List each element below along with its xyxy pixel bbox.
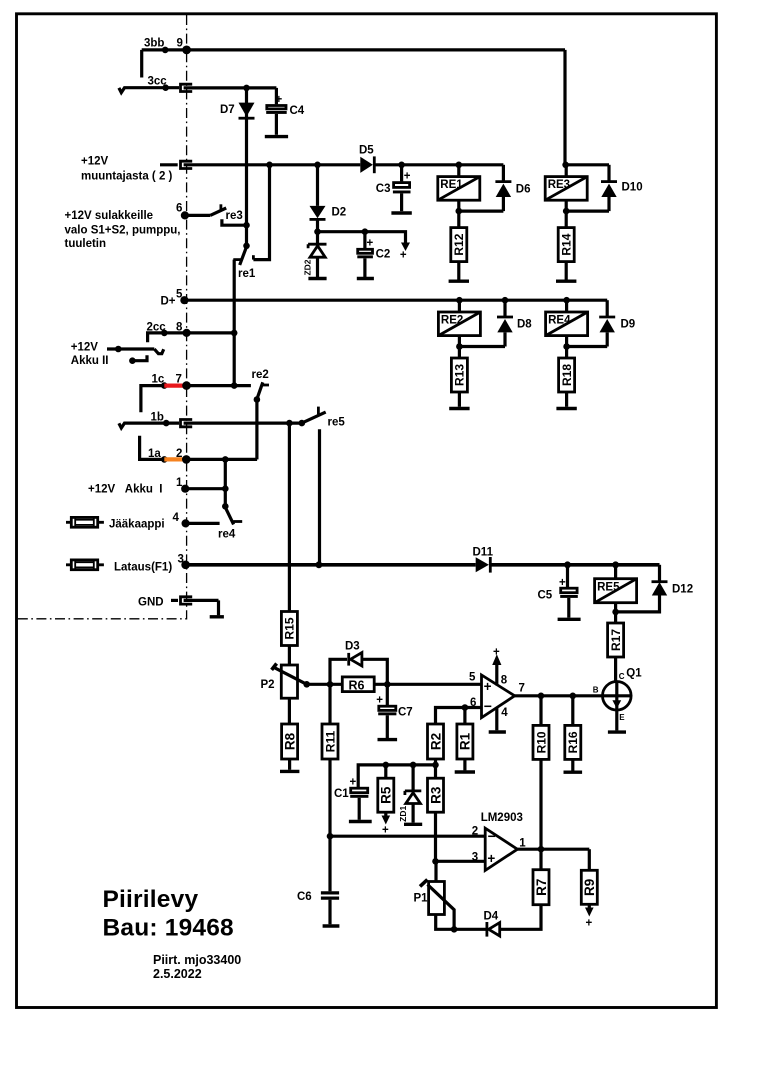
- svg-text:R14: R14: [560, 233, 574, 255]
- svg-text:valo S1+S2, pumppu,: valo S1+S2, pumppu,: [65, 225, 181, 237]
- comparator U2 body: [485, 828, 517, 870]
- op-amp U1 body: [482, 675, 515, 718]
- wire comparator output: [517, 848, 589, 851]
- relay contact re1 pivot dot: [243, 243, 250, 250]
- junction dot R15 branch: [286, 420, 293, 427]
- wire 1c: [141, 386, 164, 413]
- diode D10: [601, 180, 617, 183]
- svg-text:R12: R12: [452, 233, 466, 255]
- svg-text:7: 7: [519, 683, 525, 695]
- resistor R6: [342, 677, 374, 692]
- wire output to R9: [588, 849, 591, 870]
- svg-text:D5: D5: [359, 145, 374, 157]
- wire 1a to re2 corner: [186, 458, 257, 461]
- wire rail 9 drop to RE3: [563, 50, 566, 166]
- svg-text:R15: R15: [283, 617, 297, 639]
- terminal bar R13: [449, 407, 469, 410]
- wire re1 right contact to +12V rail: [253, 165, 269, 260]
- svg-text:+12V: +12V: [71, 341, 99, 353]
- svg-text:C2: C2: [376, 249, 391, 261]
- svg-text:3bb: 3bb: [144, 38, 164, 50]
- terminal bar R12: [449, 280, 469, 283]
- terminal bar R14: [556, 280, 576, 283]
- node 9 dot: [182, 46, 191, 55]
- junction dot ZD2 node: [314, 228, 321, 235]
- svg-text:R5: R5: [379, 786, 394, 804]
- resistor R16: [565, 725, 581, 759]
- junction dot re3/D7: [243, 222, 250, 229]
- svg-text:R17: R17: [609, 629, 623, 651]
- svg-text:E: E: [619, 713, 625, 722]
- svg-text:R6: R6: [349, 678, 365, 692]
- wire R6 to opamp pin5: [374, 683, 481, 686]
- svg-text:Piirt. mjo33400: Piirt. mjo33400: [153, 953, 241, 967]
- svg-text:D10: D10: [622, 182, 643, 194]
- svg-text:R7: R7: [534, 879, 549, 896]
- wire RE2 to R13: [458, 347, 461, 359]
- svg-text:RE3: RE3: [548, 179, 570, 191]
- svg-text:tuuletin: tuuletin: [65, 238, 107, 250]
- diode D7: [239, 103, 255, 117]
- svg-text:+: +: [367, 238, 374, 250]
- potentiometer P1: [429, 882, 445, 915]
- capacitor C6: [328, 836, 331, 891]
- wire RE3 to R14: [565, 211, 568, 228]
- diode D12: [652, 580, 668, 583]
- svg-text:8: 8: [501, 675, 508, 687]
- junction dot RE5: [612, 561, 619, 568]
- junction dot 2cc re1 wire: [231, 330, 238, 337]
- diode D5: [360, 157, 373, 173]
- svg-text:re2: re2: [252, 369, 269, 381]
- svg-text:D+: D+: [161, 296, 176, 308]
- fuse Lataus F1: [66, 563, 104, 566]
- junction dot RE3 bottom: [563, 208, 570, 215]
- supply arrow R9: [588, 904, 591, 908]
- svg-text:+: +: [484, 679, 492, 694]
- junction dot 3cc: [162, 84, 169, 91]
- junction dot 2cc left: [161, 330, 168, 337]
- connector +12V muuntajasta: [160, 163, 178, 166]
- re1 left contact tick: [233, 258, 241, 261]
- wire opamp pin6: [436, 708, 482, 725]
- relay contact re1 arm: [240, 247, 247, 265]
- fuse Jaakaappi: [66, 521, 104, 524]
- junction dot 1a: [161, 456, 168, 463]
- svg-text:RE4: RE4: [548, 315, 571, 327]
- orange wire segment 1a: [164, 457, 186, 461]
- wire Q1 emitter: [615, 710, 618, 730]
- junction dot ZD1 top: [410, 762, 417, 769]
- connector 1b: [181, 420, 193, 427]
- wire C1 net: [358, 765, 435, 787]
- wire D9 bottom: [606, 332, 609, 346]
- svg-text:P2: P2: [261, 679, 275, 691]
- resistor R17: [608, 623, 624, 657]
- ground bar GND: [210, 615, 224, 618]
- svg-text:R11: R11: [323, 731, 337, 753]
- wire R6 node to R11: [328, 684, 331, 724]
- resistor R13: [451, 358, 467, 392]
- svg-text:Lataus(F1): Lataus(F1): [114, 562, 172, 574]
- junction dot RE4 bottom: [563, 343, 570, 350]
- wire P2 to R8: [288, 698, 291, 724]
- diode D2: [310, 206, 326, 218]
- resistor R5: [378, 778, 394, 812]
- wire R1 top: [463, 708, 466, 725]
- wire RE2 bottom to D8: [459, 345, 505, 348]
- wire 1a re4 branch down: [224, 459, 227, 488]
- wire D6 top: [502, 165, 505, 182]
- wire R3 to pin3 net: [434, 812, 437, 861]
- terminal bar R8: [280, 770, 299, 773]
- wire rail 9: [142, 48, 565, 51]
- terminal bar R16: [564, 771, 583, 774]
- diode D11: [476, 557, 489, 572]
- wire 1b to R15: [288, 423, 291, 611]
- 3cc hook terminal: [119, 88, 132, 93]
- wire 1b: [132, 422, 180, 425]
- junction dot node 1 re4: [222, 485, 229, 492]
- svg-text:LM2903: LM2903: [481, 812, 523, 824]
- zener ZD1: [412, 765, 415, 791]
- relay RE5 coil: [614, 565, 617, 579]
- switch re5 pivot dot: [299, 420, 306, 427]
- svg-text:5: 5: [469, 671, 476, 683]
- wire RE4 bottom to D9: [567, 345, 608, 348]
- wire D10 top: [607, 165, 610, 182]
- wire D3 loop left: [330, 659, 347, 684]
- wire 1c to re2: [187, 384, 251, 387]
- op-amp U1 power arrow: [495, 662, 498, 686]
- svg-text:R1: R1: [458, 732, 473, 750]
- wire ZD2 node to arrow: [318, 232, 406, 244]
- supply arrow near C2: [401, 243, 410, 252]
- junction dot RE3 rail: [562, 162, 569, 169]
- 1b hook terminal: [119, 423, 132, 428]
- svg-text:R2: R2: [428, 733, 443, 750]
- resistor R7: [533, 870, 549, 905]
- svg-text:−: −: [488, 828, 496, 844]
- switch re2: [256, 382, 263, 401]
- junction dot RE1 rail: [456, 162, 463, 169]
- wire R16 to bar: [571, 759, 574, 770]
- svg-text:4: 4: [173, 512, 180, 524]
- junction dot RE4 rail: [563, 297, 570, 304]
- supply arrow R5: [384, 812, 387, 816]
- node 7 dot: [182, 381, 191, 390]
- terminal bar Q1 emitter: [608, 730, 626, 733]
- capacitor C4: [275, 88, 278, 104]
- wire R1 to bar: [463, 759, 466, 770]
- svg-text:re3: re3: [226, 210, 243, 222]
- svg-text:ZD2: ZD2: [303, 259, 313, 275]
- wire R5 top lead: [384, 765, 387, 778]
- junction dot RE1 bottom: [456, 208, 463, 215]
- junction dot on rail 9: [162, 47, 169, 54]
- junction dot R7 top: [538, 846, 545, 853]
- svg-text:+: +: [376, 695, 383, 707]
- wire D4 to R7 bottom: [500, 905, 541, 930]
- svg-text:+12V sulakkeille: +12V sulakkeille: [65, 210, 154, 222]
- junction dot P1 wiper: [451, 926, 458, 933]
- wire R15 to P2: [288, 646, 291, 666]
- node 3 dot: [181, 561, 190, 570]
- wire D5 to RE1 rail: [374, 163, 503, 166]
- svg-text:RE2: RE2: [441, 315, 463, 327]
- junction dot C5: [564, 561, 571, 568]
- wire R14 to bar: [565, 262, 568, 280]
- wire P2 tap to R6: [307, 683, 343, 686]
- svg-text:+: +: [400, 250, 407, 262]
- resistor R18: [559, 358, 575, 392]
- capacitor C1: [351, 788, 368, 793]
- wire P1 bottom: [436, 915, 486, 929]
- wire pin3 net: [436, 860, 486, 863]
- wire 3cc: [132, 86, 180, 89]
- node 4 dot: [182, 519, 190, 527]
- wire D+ rail: [184, 299, 607, 302]
- svg-text:R10: R10: [534, 731, 548, 753]
- wire 3cc to C4: [247, 86, 277, 89]
- junction dot RE2 bottom: [456, 343, 463, 350]
- re1 right contact tick: [252, 255, 255, 259]
- PCB boundary dash-dot line: [18, 15, 187, 619]
- svg-text:R13: R13: [453, 364, 467, 386]
- resistor R12: [451, 228, 467, 262]
- capacitor C7: [386, 684, 389, 705]
- op-amp U1 pin4 ground: [495, 707, 498, 730]
- wire GND to ground: [217, 600, 220, 615]
- wire R7 top lead: [539, 849, 542, 870]
- svg-text:B: B: [593, 686, 599, 695]
- relay RE3 coil: [565, 165, 568, 177]
- wire D3 loop right: [362, 659, 387, 684]
- resistor R15: [281, 612, 297, 646]
- wire RE5 to R17: [614, 612, 617, 623]
- connector 3cc: [181, 84, 193, 91]
- svg-text:2: 2: [472, 826, 478, 838]
- svg-text:D8: D8: [517, 319, 532, 331]
- junction dot 1c re1 wire: [231, 382, 238, 389]
- junction dot R5 top: [383, 762, 390, 769]
- junction dot D7 top: [243, 85, 250, 92]
- svg-text:C5: C5: [538, 590, 553, 602]
- wire D8 top: [503, 300, 506, 317]
- svg-text:Bau: 19468: Bau: 19468: [103, 915, 234, 942]
- svg-text:muuntajasta ( 2 ): muuntajasta ( 2 ): [81, 170, 173, 182]
- resistor R14: [558, 228, 574, 262]
- junction dot R16: [570, 693, 577, 700]
- resistor R10: [533, 725, 549, 759]
- svg-text:D7: D7: [220, 104, 235, 116]
- diode D3: [347, 653, 350, 666]
- svg-text:D9: D9: [621, 319, 636, 331]
- wire Jaakaappi rail: [186, 522, 220, 525]
- junction dot D8 rail: [502, 297, 509, 304]
- wire D10 bottom: [607, 197, 610, 211]
- wire R12 to bar: [457, 262, 460, 280]
- transistor Q1: [603, 682, 632, 711]
- wire 1a: [140, 436, 165, 460]
- node 2 dot: [182, 455, 191, 464]
- junction dot RE2 rail: [456, 297, 463, 304]
- svg-text:R16: R16: [566, 731, 580, 753]
- svg-text:+: +: [404, 171, 411, 183]
- node 5 dot: [180, 296, 188, 304]
- svg-text:R9: R9: [582, 879, 597, 896]
- resistor R2: [428, 724, 444, 759]
- wire D7 vertical: [245, 88, 248, 246]
- wire opamp pin7 to Q1 base: [515, 694, 603, 697]
- wire RE3 rail to D10: [566, 163, 609, 166]
- svg-text:re5: re5: [328, 417, 346, 429]
- wire R11 to pin2 net: [328, 759, 331, 836]
- junction dot RE5 bottom: [612, 609, 619, 616]
- svg-text:Piirilevy: Piirilevy: [103, 886, 199, 913]
- junction dot 1b: [163, 420, 170, 427]
- wire D12 branch: [658, 565, 661, 582]
- svg-text:6: 6: [176, 203, 182, 215]
- connector GND: [171, 599, 178, 602]
- switch re3: [185, 214, 210, 217]
- svg-text:re1: re1: [238, 268, 256, 280]
- switch re4: [224, 489, 227, 507]
- svg-text:R3: R3: [428, 786, 443, 804]
- junction dot re5 contact on Lataus rail: [316, 561, 323, 568]
- svg-text:P1: P1: [414, 893, 429, 905]
- svg-text:9: 9: [177, 38, 183, 50]
- terminal bar R1: [455, 770, 475, 773]
- svg-text:ZD1: ZD1: [398, 806, 408, 822]
- wire node 1 rail: [185, 487, 227, 490]
- wire D11 to D12 corner: [490, 563, 659, 567]
- junction dot pin3/R3: [432, 858, 439, 865]
- wire D6 bottom: [502, 197, 505, 211]
- svg-text:+: +: [493, 647, 500, 659]
- wire 3bb stub: [140, 50, 143, 78]
- svg-text:R8: R8: [282, 732, 297, 750]
- svg-text:C4: C4: [290, 105, 305, 117]
- svg-text:+: +: [350, 777, 357, 789]
- svg-text:+: +: [487, 851, 495, 866]
- junction dot re1 branch: [266, 162, 273, 169]
- capacitor C5: [566, 565, 569, 587]
- svg-text:4: 4: [501, 707, 508, 719]
- resistor R9: [581, 870, 597, 904]
- wire re5 fixed contact down: [318, 429, 321, 565]
- node 8 dot: [183, 329, 191, 337]
- svg-text:C6: C6: [297, 891, 312, 903]
- node 1 dot: [181, 485, 189, 493]
- svg-text:Jääkaappi: Jääkaappi: [109, 518, 165, 530]
- resistor R11: [322, 724, 338, 759]
- junction dot D2 branch: [314, 162, 321, 169]
- junction dot R3 top: [432, 762, 439, 769]
- svg-text:D4: D4: [484, 911, 499, 923]
- svg-text:Akku II: Akku II: [71, 355, 109, 367]
- wire pin2 net: [330, 835, 485, 838]
- resistor R1: [457, 724, 473, 759]
- wire D9 top: [606, 300, 609, 317]
- resistor R8: [282, 724, 298, 759]
- svg-text:+: +: [586, 918, 593, 930]
- svg-text:RE5: RE5: [597, 582, 620, 594]
- svg-text:C7: C7: [398, 707, 413, 719]
- junction dot 1a re4 branch: [222, 456, 229, 463]
- wire D8 bottom: [503, 332, 506, 346]
- wire R10 to comparator output: [539, 759, 542, 847]
- node 6 dot: [181, 211, 189, 219]
- svg-text:D6: D6: [516, 184, 531, 196]
- relay RE2 coil: [458, 300, 461, 312]
- zener ZD2: [316, 232, 319, 245]
- svg-text:re4: re4: [218, 529, 236, 541]
- wire RE1 bottom to D6: [459, 210, 504, 213]
- wire R18 to bar: [565, 392, 568, 407]
- terminal bar R18: [556, 407, 576, 410]
- junction dot D3/R11 branch: [327, 681, 334, 688]
- junction dot R1 branch: [462, 704, 469, 711]
- wire RE3 bottom to D10: [566, 210, 609, 213]
- relay RE1 coil: [457, 165, 460, 177]
- diode D6: [495, 180, 511, 183]
- junction dot C7 branch: [384, 681, 391, 688]
- svg-text:2.5.2022: 2.5.2022: [153, 967, 202, 981]
- svg-text:Q1: Q1: [626, 668, 642, 680]
- wire D2 to ZD2 node: [316, 219, 319, 231]
- wire RE4 to R18: [565, 347, 568, 359]
- diode D9: [599, 316, 615, 319]
- svg-text:D12: D12: [672, 584, 693, 596]
- wire re1 left contact down: [233, 260, 236, 386]
- junction dot P2 tap: [303, 681, 310, 688]
- svg-text:+12V: +12V: [81, 156, 109, 168]
- junction dot R10: [538, 693, 545, 700]
- resistor R3: [428, 778, 444, 812]
- svg-text:D11: D11: [473, 547, 494, 559]
- relay RE4 coil: [565, 300, 568, 312]
- wire Lataus rail to D11: [186, 563, 476, 567]
- wire R10 top: [539, 696, 542, 726]
- wire R2 bottom: [434, 759, 437, 778]
- diode D4: [485, 922, 488, 937]
- wire 2cc: [148, 333, 235, 342]
- potentiometer P2: [281, 665, 297, 698]
- switch re5: [302, 412, 326, 423]
- junction dot C3: [398, 162, 405, 169]
- wire D2 drop: [316, 165, 319, 206]
- junction dot C2 branch: [362, 228, 369, 235]
- wire R16 top: [571, 696, 574, 726]
- svg-text:GND: GND: [138, 597, 164, 609]
- svg-text:−: −: [484, 698, 492, 714]
- junction dot pin2 net: [327, 833, 334, 840]
- svg-text:C: C: [619, 672, 625, 681]
- capacitor C3: [400, 165, 403, 182]
- svg-text:RE1: RE1: [440, 179, 463, 191]
- wire R13 to bar: [458, 392, 461, 407]
- wire R17 to Q1 collector: [614, 657, 617, 682]
- svg-text:C1: C1: [334, 788, 349, 800]
- svg-text:D2: D2: [332, 207, 347, 219]
- junction dot 1c: [161, 382, 168, 389]
- switch Akku II: [107, 347, 154, 350]
- red wire segment 1c: [164, 384, 186, 388]
- capacitor C2: [363, 232, 366, 248]
- svg-text:C3: C3: [376, 183, 391, 195]
- svg-text:R18: R18: [560, 364, 574, 386]
